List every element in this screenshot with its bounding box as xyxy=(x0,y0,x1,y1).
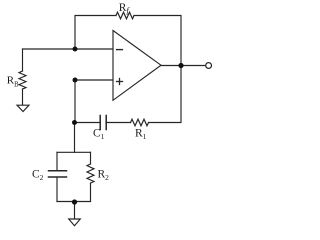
resistor Rf xyxy=(116,12,134,19)
wire RB bottom lead xyxy=(22,89,24,105)
wire top rail left segment xyxy=(75,16,116,50)
wire R2 bottom lead xyxy=(90,183,92,202)
wire node C to C1 xyxy=(75,122,101,124)
wire tank bottom rail xyxy=(57,201,91,203)
capacitor C1 xyxy=(100,116,106,130)
op-amp U1 xyxy=(113,31,161,101)
wire C2 top lead xyxy=(56,152,58,170)
op-amp minus symbol xyxy=(117,49,123,51)
wire non-inverting input xyxy=(75,79,113,81)
wire C2 bottom lead xyxy=(56,177,58,201)
op-amp plus symbol xyxy=(117,79,123,85)
wire R2 top lead xyxy=(90,152,92,164)
wire node B to node C xyxy=(74,80,76,122)
wire op-amp output xyxy=(161,65,206,67)
wire tank top rail xyxy=(57,151,91,153)
ground left xyxy=(17,105,29,111)
wire RB top lead xyxy=(22,49,24,71)
output terminal xyxy=(206,63,212,69)
wire to bottom ground xyxy=(74,202,76,219)
wire top rail right segment xyxy=(134,16,181,66)
capacitor C2 xyxy=(49,171,67,177)
wire C1 to R1 xyxy=(106,122,130,124)
wire inverting input xyxy=(23,48,114,50)
resistor R2 xyxy=(87,164,94,183)
node D output junction xyxy=(178,63,183,68)
node A inverting junction xyxy=(73,47,78,52)
node E ground junction xyxy=(72,199,77,204)
node C tank junction xyxy=(72,120,77,125)
svg-text:C1: C1 xyxy=(93,128,105,142)
node B non-inverting junction xyxy=(73,78,78,83)
wire R1 to output node xyxy=(149,66,182,123)
resistor R1 xyxy=(131,119,149,126)
svg-text:R1: R1 xyxy=(135,128,147,142)
svg-text:R2: R2 xyxy=(98,169,110,183)
svg-text:RB: RB xyxy=(7,75,19,89)
resistor RB xyxy=(19,71,26,89)
ground bottom xyxy=(69,219,81,226)
svg-text:C2: C2 xyxy=(32,169,44,183)
wire node C down to tank xyxy=(74,123,76,153)
